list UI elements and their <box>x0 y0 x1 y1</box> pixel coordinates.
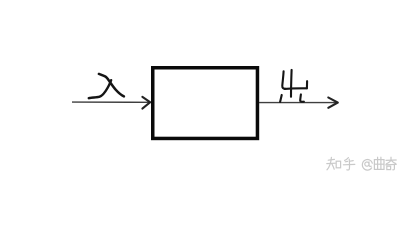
input pulse sketch upper stroke <box>99 74 124 97</box>
watermark char 乎 <box>345 158 349 161</box>
block (system box) <box>153 68 258 139</box>
impulse-train sketch left bottom tick <box>280 95 282 102</box>
wire input line <box>72 101 149 103</box>
output arrowhead <box>328 98 338 108</box>
impulse-train sketch left vertical with bottom curve <box>282 71 285 89</box>
impulse-train sketch axis horizontal <box>285 87 307 90</box>
impulse-train sketch middle tall vertical <box>290 70 293 97</box>
watermark char @ <box>362 160 372 171</box>
watermark char 奇 <box>386 159 396 161</box>
impulse-train sketch right bottom tick with hook <box>300 94 304 101</box>
input pulse sketch rising stroke <box>89 80 111 98</box>
watermark char 知 <box>328 158 334 161</box>
impulse-train sketch right up hook <box>306 81 308 88</box>
watermark group 知乎 @曲奇 <box>327 157 355 170</box>
watermark char 曲 <box>374 160 384 170</box>
wire output line <box>259 102 337 104</box>
input arrowhead <box>142 97 150 109</box>
